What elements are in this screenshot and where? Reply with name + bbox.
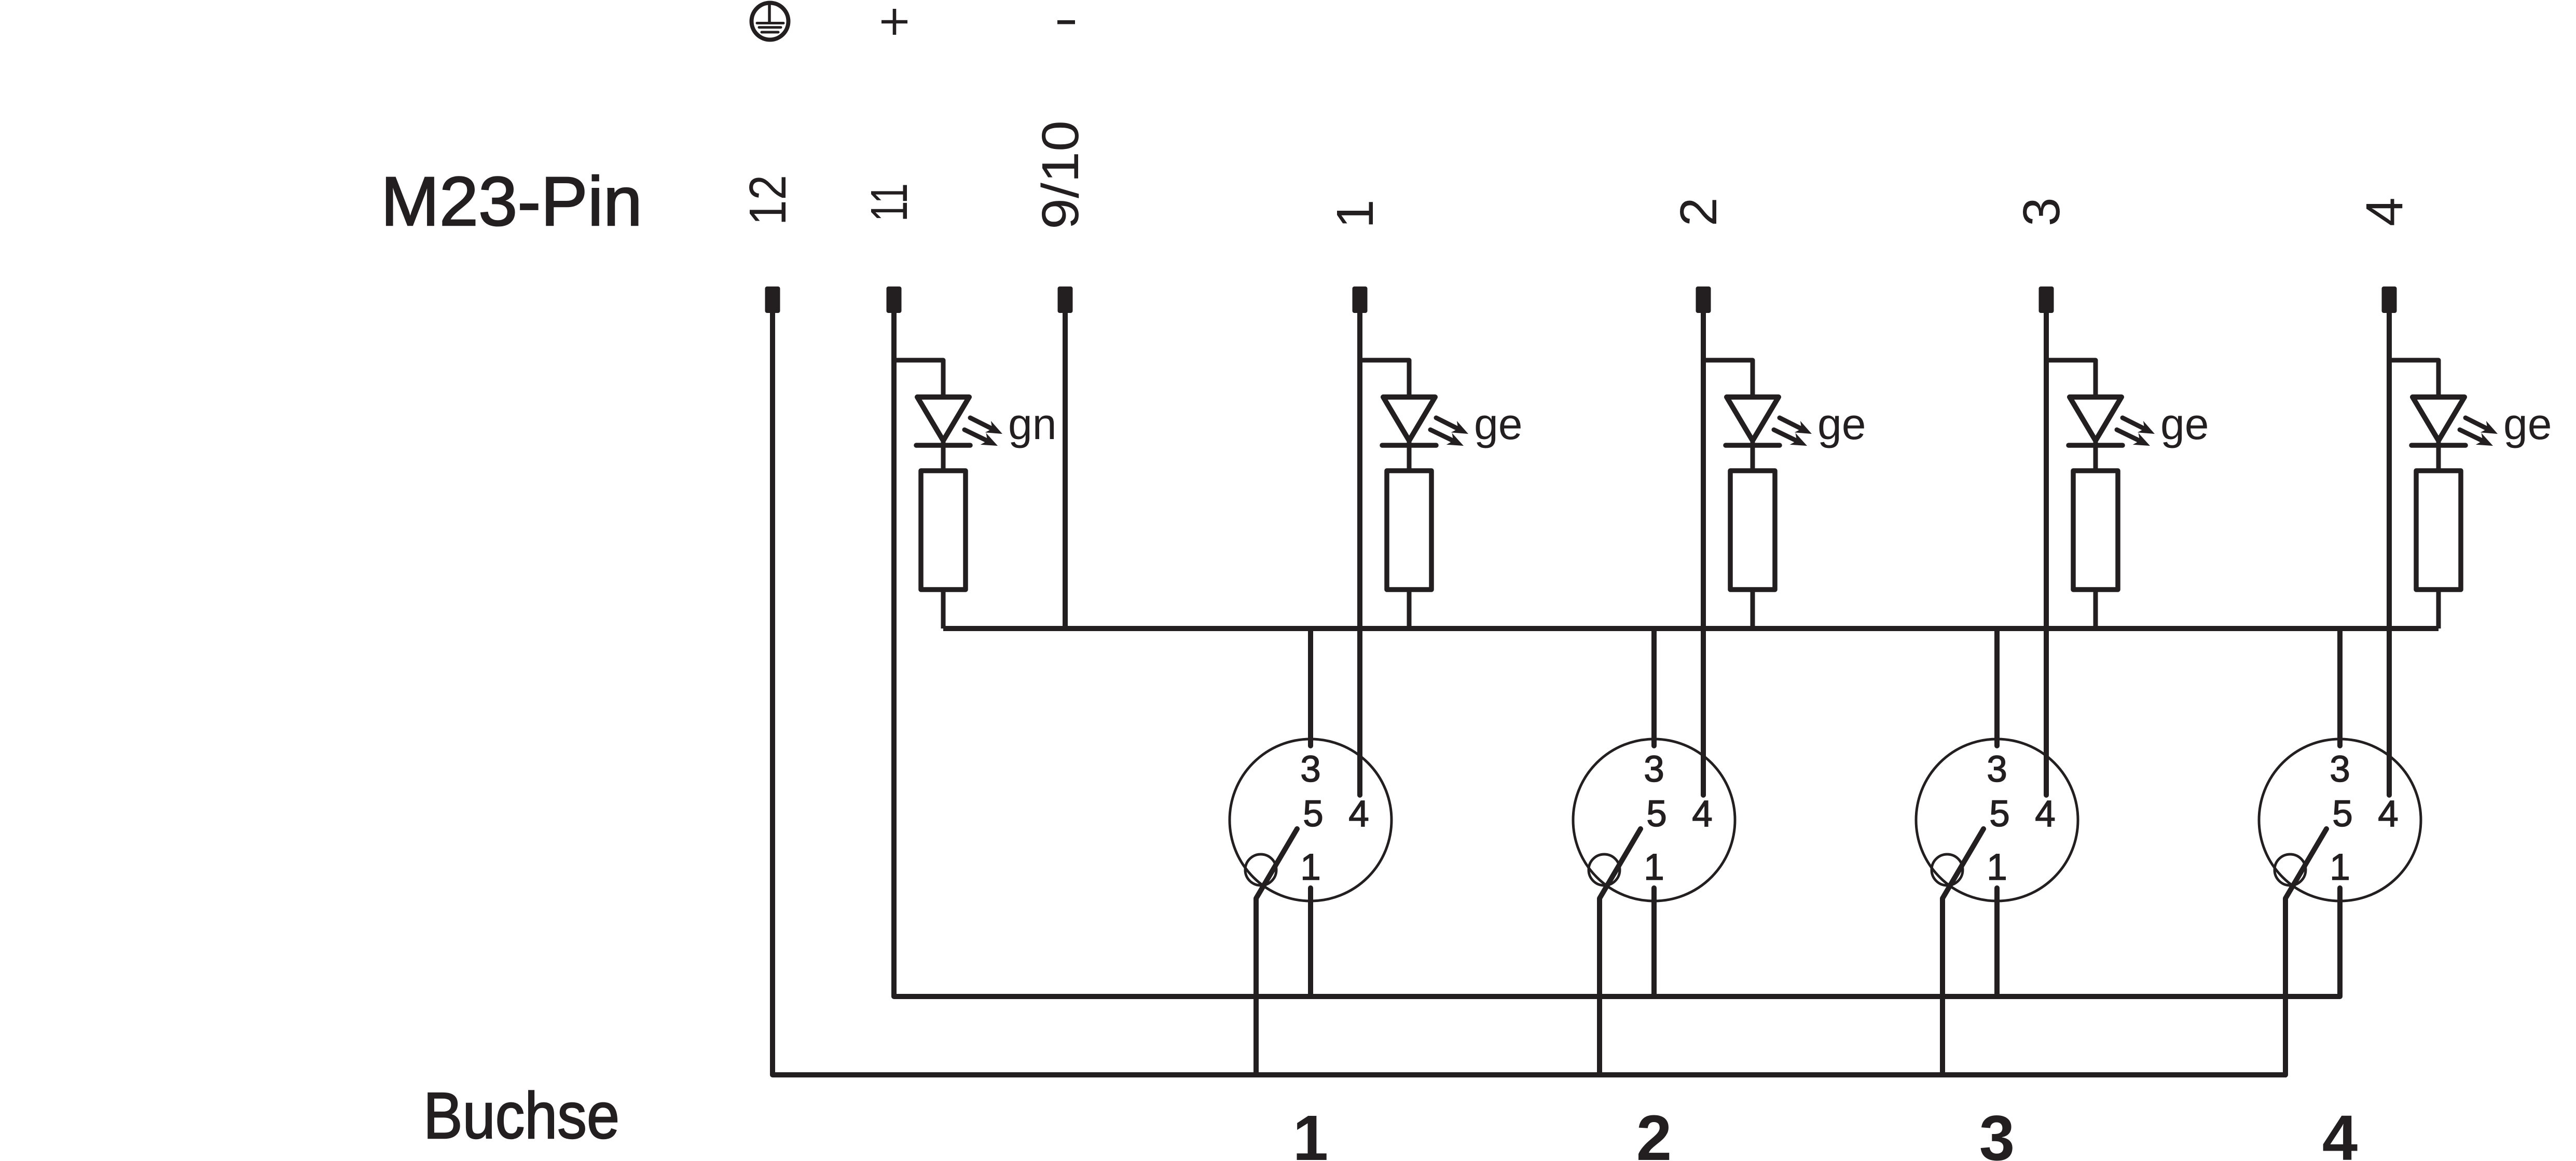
svg-text:5: 5 <box>1646 794 1667 835</box>
wire socket 2 pin 1 to plus rail <box>1651 888 1657 996</box>
wire pin 4 to socket 4 pin 4 <box>2387 313 2392 795</box>
wire socket 1 pin 1 to plus rail <box>1308 888 1313 996</box>
svg-text:1: 1 <box>1987 847 2007 888</box>
resistor R2 <box>1387 471 1431 590</box>
M23 terminal pad pin 12 <box>765 286 780 313</box>
svg-text:1: 1 <box>2330 847 2350 888</box>
svg-text:5: 5 <box>2332 794 2353 835</box>
socket 4 coding notch <box>2275 854 2306 885</box>
minus bus wire <box>943 626 2439 631</box>
svg-text:3: 3 <box>1987 749 2007 790</box>
resistor R3 <box>1730 471 1775 590</box>
protective earth symbol <box>752 3 789 40</box>
svg-text:3: 3 <box>1300 749 1321 790</box>
wire socket 3 pin 5 to PE rail <box>1943 829 1983 1075</box>
wire pin 2 to socket 2 pin 4 <box>1701 313 1706 795</box>
svg-text:Buchse: Buchse <box>423 1079 619 1152</box>
svg-text:3: 3 <box>1979 1103 2015 1161</box>
svg-text:3: 3 <box>2330 749 2350 790</box>
minus label (0 V feed) <box>1057 20 1075 24</box>
wire LED branch 5 from x=4605 <box>2389 360 2439 397</box>
svg-text:4: 4 <box>2378 794 2399 835</box>
plus label (+24 V feed) <box>881 9 907 35</box>
socket 3 coding notch <box>1932 854 1963 885</box>
svg-text:1: 1 <box>1293 1103 1328 1161</box>
wire socket 1 pin 5 to PE rail <box>1256 829 1297 1075</box>
svg-text:11: 11 <box>860 183 918 222</box>
LED D1 light arrow <box>970 418 1002 434</box>
wire minus bus to socket 4 pin 3 <box>2337 629 2343 746</box>
LED D1 light arrow <box>965 430 998 446</box>
M23 terminal pad pin 9/10 <box>1058 286 1073 313</box>
wire resistor R5 to minus bus <box>2436 590 2441 629</box>
svg-text:2: 2 <box>1670 197 1728 226</box>
socket 2 coding notch <box>1589 854 1620 885</box>
M23 terminal pad pin 1 <box>1353 286 1368 313</box>
M23 terminal pad pin 2 <box>1696 286 1711 313</box>
svg-text:ge: ge <box>2503 400 2552 448</box>
svg-text:1: 1 <box>1300 847 1321 888</box>
LED D4 (ge) <box>2069 397 2123 471</box>
svg-text:4: 4 <box>1348 794 1369 835</box>
wire socket 3 pin 1 to plus rail <box>1994 888 2000 996</box>
LED D2 light arrow <box>1430 430 1464 446</box>
svg-text:12: 12 <box>739 175 797 225</box>
resistor R1 <box>921 471 966 590</box>
resistor R4 <box>2073 471 2118 590</box>
socket 3 (M12 face view) <box>1916 739 2078 901</box>
svg-text:2: 2 <box>1636 1103 1672 1161</box>
svg-text:M23-Pin: M23-Pin <box>381 163 642 240</box>
wire pin 1 to socket 1 pin 4 <box>1357 313 1362 795</box>
LED D5 light arrow <box>2460 430 2493 446</box>
LED D2 light arrow <box>1436 418 1468 434</box>
LED D3 light arrow <box>1774 430 1807 446</box>
wire LED branch 4 from x=3944 <box>2046 360 2096 397</box>
wire LED branch 1 from x=1723 <box>894 360 943 397</box>
wire resistor R1 to minus bus <box>941 590 946 629</box>
svg-text:4: 4 <box>2355 197 2414 226</box>
wire socket 4 pin 5 to PE rail <box>2285 829 2326 1075</box>
wire resistor R2 to minus bus <box>1407 590 1412 629</box>
M23 terminal pad pin 11 <box>887 286 902 313</box>
svg-text:ge: ge <box>1817 400 1866 448</box>
svg-text:9/10: 9/10 <box>1031 120 1090 229</box>
wire socket 4 pin 1 to plus rail <box>2337 888 2343 996</box>
LED D2 (ge) <box>1382 397 1436 471</box>
svg-text:ge: ge <box>2160 400 2209 448</box>
socket 1 (M12 face view) <box>1230 739 1392 901</box>
wire pin 11 to socket pin-1 rail (net +) <box>894 313 2340 996</box>
svg-text:1: 1 <box>1644 847 1664 888</box>
wire LED branch 3 from x=3283 <box>1703 360 1753 397</box>
svg-text:4: 4 <box>2035 794 2056 835</box>
LED D3 (ge) <box>1726 397 1780 471</box>
svg-text:1: 1 <box>1326 199 1384 228</box>
svg-text:gn: gn <box>1008 400 1056 448</box>
LED D4 light arrow <box>2117 430 2150 446</box>
wire resistor R4 to minus bus <box>2093 590 2098 629</box>
svg-text:4: 4 <box>2322 1103 2358 1161</box>
M23 terminal pad pin 4 <box>2382 286 2397 313</box>
svg-text:ge: ge <box>1474 400 1522 448</box>
LED D5 (ge) <box>2412 397 2465 471</box>
wire LED branch 2 from x=2621 <box>1360 360 1409 397</box>
socket 2 (M12 face view) <box>1573 739 1735 901</box>
wire pin 9/10 to minus bus (net -) <box>1063 313 1068 629</box>
LED D4 light arrow <box>2123 418 2155 434</box>
M23 terminal pad pin 3 <box>2039 286 2054 313</box>
wire resistor R3 to minus bus <box>1751 590 1755 629</box>
svg-text:3: 3 <box>1644 749 1664 790</box>
wire minus bus to socket 1 pin 3 <box>1308 629 1313 746</box>
LED D3 light arrow <box>1780 418 1812 434</box>
wire socket 2 pin 5 to PE rail <box>1600 829 1641 1075</box>
svg-text:5: 5 <box>1989 794 2010 835</box>
svg-text:4: 4 <box>1692 794 1713 835</box>
LED D5 light arrow <box>2465 418 2498 434</box>
LED D1 (gn) <box>916 397 970 471</box>
wire pin 12 to socket pin-5 rail (net PE) <box>773 313 2286 1075</box>
wire minus bus to socket 3 pin 3 <box>1994 629 2000 746</box>
resistor R5 <box>2416 471 2461 590</box>
socket 1 coding notch <box>1245 854 1276 885</box>
wire minus bus to socket 2 pin 3 <box>1651 629 1657 746</box>
socket 4 (M12 face view) <box>2259 739 2421 901</box>
svg-text:5: 5 <box>1303 794 1324 835</box>
svg-text:3: 3 <box>2013 197 2071 226</box>
wire pin 3 to socket 3 pin 4 <box>2044 313 2049 795</box>
